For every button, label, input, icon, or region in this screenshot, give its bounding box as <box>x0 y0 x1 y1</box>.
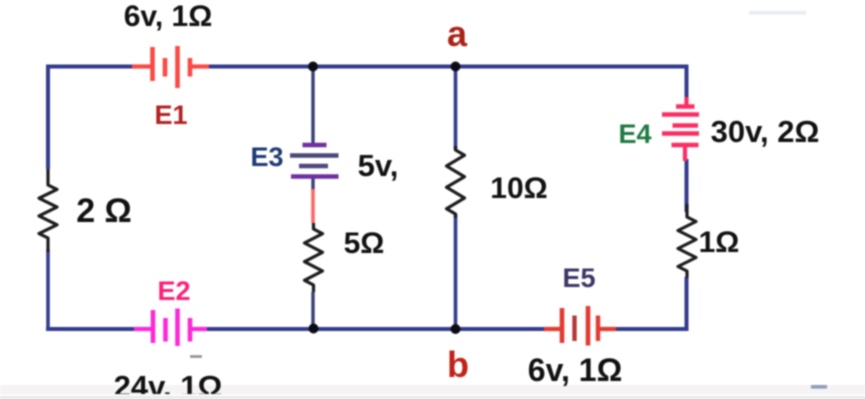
node b junction dot <box>451 324 461 334</box>
wire 10-ohm branch top (node a down to resistor) <box>454 67 458 151</box>
resistor 1-ohm (right rail) <box>678 204 696 278</box>
wire top-right segment (node a to right corner, down to E4) <box>456 67 687 100</box>
wire E3 branch stub below battery <box>311 176 314 191</box>
wire bottom segment (node b to E5) <box>456 327 546 331</box>
wire right rail between E4 and 1-ohm resistor <box>685 159 689 212</box>
artifact small slate dash bottom right <box>811 385 827 389</box>
wire left rail below 2-ohm resistor <box>46 250 50 331</box>
node junction dot top E3 branch <box>308 62 318 72</box>
svg-text:E1: E1 <box>154 100 187 130</box>
svg-text:10Ω: 10Ω <box>490 172 547 205</box>
wire bottom-right segment (E5 to right corner) <box>616 277 687 329</box>
wire top-middle segment (E1 to node a) <box>208 65 456 69</box>
battery E2 (bottom rail, magenta) <box>134 309 207 347</box>
resistor 2-ohm (left rail) <box>39 169 57 252</box>
battery E4 (right rail, pink, vertical) <box>662 97 699 161</box>
svg-text:1Ω: 1Ω <box>699 226 740 259</box>
battery E1 (top rail, red) <box>132 46 209 88</box>
svg-text:b: b <box>447 344 469 385</box>
svg-text:30v, 2Ω: 30v, 2Ω <box>711 114 820 149</box>
artifact bottom gray bar faint band <box>0 385 865 394</box>
battery E5 (bottom right, red) <box>544 306 616 346</box>
svg-text:E3: E3 <box>250 142 283 172</box>
artifact faint line top right <box>749 11 806 15</box>
wire bottom-left segment (corner to E2) <box>46 327 136 331</box>
svg-text:E5: E5 <box>562 263 595 293</box>
wire top-left segment (corner to E1) <box>48 67 134 170</box>
wire red segment between E3 and 5-ohm resistor <box>311 189 315 223</box>
svg-text:E4: E4 <box>618 119 651 149</box>
wire 10-ohm branch bottom (resistor to node b) <box>454 214 458 329</box>
resistor 10-ohm (middle branch) <box>447 146 465 218</box>
svg-text:6v, 1Ω: 6v, 1Ω <box>124 0 213 33</box>
resistor 5-ohm (E3 branch) <box>305 223 323 292</box>
svg-text:a: a <box>447 13 468 54</box>
wire E3 branch top (node on top rail down to E3) <box>311 67 314 144</box>
artifact bottom gray bar lower part <box>0 394 865 399</box>
wire E3 branch bottom (5-ohm resistor to bottom rail) <box>311 292 314 331</box>
artifact small gray dash below E2 <box>190 355 202 358</box>
svg-text:E2: E2 <box>157 276 190 306</box>
svg-text:2 Ω: 2 Ω <box>76 192 132 230</box>
svg-text:6v, 1Ω: 6v, 1Ω <box>528 352 622 388</box>
svg-text:5v,: 5v, <box>358 148 399 183</box>
wire bottom-middle segment (E2 to node b) <box>206 327 456 331</box>
node a junction dot <box>451 62 461 72</box>
node junction dot bottom E3 branch <box>309 324 319 334</box>
svg-text:5Ω: 5Ω <box>344 227 385 260</box>
battery E3 (middle branch, purple, vertical) <box>290 145 339 177</box>
